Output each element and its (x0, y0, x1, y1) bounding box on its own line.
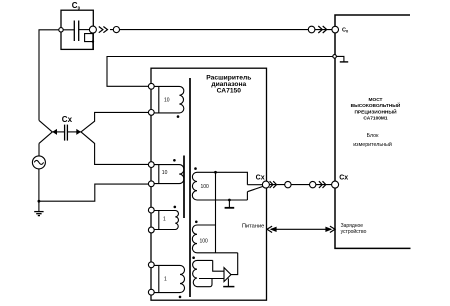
wire C0 right plate to output connector (79, 29, 93, 31)
svg-text:СА7150: СА7150 (217, 88, 242, 95)
polarity dot W3 (174, 206, 177, 209)
coax chevrons before bridge C0 terminal (318, 26, 322, 33)
capacitor C0 plates (74, 21, 78, 42)
wire W5 top lead to Cx fork (216, 172, 248, 184)
svg-text:Cx: Cx (62, 115, 73, 124)
Cx fork top lead (247, 184, 262, 186)
bridge terminal circle guard (333, 55, 337, 59)
range extender box CA7150 (151, 68, 267, 300)
winding W2 ratio 10 (154, 165, 184, 184)
transformer core bar (183, 156, 185, 219)
connector circle on Cx line right (310, 181, 316, 187)
wire from C0 box left terminal going left then down to node A (39, 30, 74, 121)
svg-text:Питание: Питание (242, 223, 264, 229)
wire W5 right vertical link (215, 172, 217, 252)
polarity dot W6 (195, 221, 198, 224)
power link double arrow between extender and bridge (271, 228, 331, 230)
node B funnel upper diagonal to wire toward winding terminal 2 (81, 112, 151, 131)
svg-text:устройство: устройство (341, 228, 367, 235)
Cx fork bottom lead (247, 186, 263, 191)
svg-text:Сх: Сх (256, 175, 265, 182)
polarity dot W2 (173, 159, 176, 162)
terminal circle C0 box left (59, 28, 63, 32)
connector circle C0 box right (89, 26, 96, 33)
polarity dot W1 (177, 115, 180, 118)
capacitor Cx plates (65, 125, 68, 141)
capacitor C0 screened box (61, 10, 93, 49)
op-amp U1 (224, 268, 231, 282)
connector circle on C0 line right (308, 26, 315, 33)
ground symbol at generator (38, 201, 40, 211)
svg-text:измерительный: измерительный (353, 141, 392, 148)
connector circle on Cx line left (285, 181, 291, 187)
winding W6 ratio 100 (192, 225, 237, 253)
bridge block outline (335, 15, 411, 248)
svg-text:Сх: Сх (339, 175, 348, 182)
svg-text:1: 1 (164, 277, 167, 283)
extender Cx output line to bridge (266, 184, 335, 186)
winding W5 ratio 100 (192, 172, 247, 200)
wire generator bottom to ground junction (38, 169, 40, 201)
bridge ground symbol (336, 56, 344, 61)
ground symbol at op-amp (227, 278, 229, 286)
wire Cx right lead (68, 131, 81, 133)
svg-text:100: 100 (201, 184, 210, 190)
guard wire from winding terminal 1 to bridge ground (107, 57, 335, 87)
svg-text:10: 10 (164, 97, 170, 103)
coax chevrons after extender Cx (270, 181, 273, 188)
wire ground node to winding terminal 4 (39, 184, 151, 201)
junction dot guard (92, 40, 94, 42)
svg-text:Блок: Блок (367, 133, 380, 139)
coax chevrons after C0 box (99, 27, 103, 33)
feedback winding W7 (193, 260, 213, 286)
wire op-amp output to W6 bottom (231, 253, 238, 275)
terminal circles on extender left edge (148, 83, 154, 89)
bridge terminal circle C0 (332, 26, 339, 33)
wire C0 line to bridge block (110, 29, 335, 31)
wire node A down to generator (38, 143, 40, 156)
node A junction triangle (52, 129, 57, 135)
svg-text:1: 1 (163, 216, 166, 222)
junction dot W5 top (214, 171, 217, 174)
coax chevrons before bridge Cx terminal (319, 181, 322, 188)
node A funnel upper diagonal (39, 120, 52, 131)
ground symbol inside extender (228, 200, 230, 207)
polarity dot W7 (192, 256, 195, 259)
wire W7 top to op-amp input (213, 260, 224, 271)
C0 guard electrode (92, 33, 94, 49)
node B junction triangle (76, 129, 81, 135)
winding W3 ratio 1 (154, 211, 178, 230)
polarity dot W5 (194, 167, 197, 170)
node A funnel lower diagonal (39, 132, 52, 144)
polarity dot W4 (179, 296, 182, 299)
generator G1 sine source (32, 156, 45, 169)
wire Cx left lead (52, 131, 64, 133)
svg-text:C0: C0 (342, 28, 349, 34)
junction dot at ground node (38, 200, 41, 203)
svg-text:СА7100М1: СА7100М1 (363, 116, 387, 122)
transformer screen line (189, 78, 191, 297)
bridge terminal circle Cx (332, 181, 339, 188)
junction dot ground tap (228, 199, 231, 202)
connector circle on C0 line left (113, 27, 119, 33)
svg-text:100: 100 (200, 238, 209, 244)
winding W1 ratio 10 (154, 86, 184, 113)
winding W4 ratio 1 (154, 265, 185, 292)
svg-text:МОСТ: МОСТ (368, 97, 382, 103)
wire W7 tap to op-amp input (199, 278, 224, 280)
svg-text:10: 10 (162, 170, 168, 176)
node B funnel lower diagonal to wire toward winding terminal 3 (81, 132, 151, 165)
connector circle Cx on extender edge (262, 181, 269, 188)
